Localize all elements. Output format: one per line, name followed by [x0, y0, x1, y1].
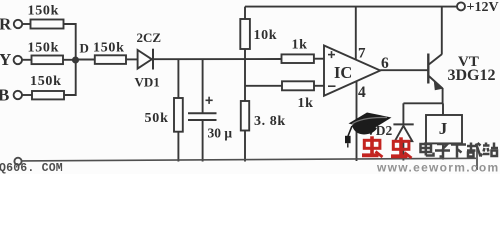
- svg-text:30 μ: 30 μ: [208, 126, 233, 141]
- char dian: [421, 142, 434, 156]
- resistor 150k (series): [95, 55, 126, 64]
- resistor 150k (R input): [31, 20, 64, 29]
- svg-text:www.eeworm.com: www.eeworm.com: [376, 161, 499, 175]
- char zi: [435, 144, 450, 157]
- svg-text:Y: Y: [0, 50, 11, 69]
- op-amp IC: [324, 46, 380, 96]
- wire: [64, 24, 76, 60]
- svg-text:1k: 1k: [298, 96, 314, 111]
- svg-text:2CZ: 2CZ: [137, 30, 162, 45]
- svg-text:B: B: [0, 86, 9, 105]
- terminal Y: [14, 56, 22, 64]
- svg-text:+12V: +12V: [467, 0, 499, 15]
- svg-text:150k: 150k: [30, 74, 62, 89]
- diode VD1: [138, 50, 152, 69]
- capacitor C1 30u: [202, 59, 204, 112]
- svg-text:R: R: [0, 15, 12, 34]
- watermark graduation cap: [345, 113, 392, 148]
- watermark bug characters (chong chong): [362, 136, 412, 158]
- wire: [22, 94, 32, 96]
- watermark text dian zi xia zai zhan: [421, 142, 499, 158]
- svg-text:7: 7: [358, 46, 366, 62]
- wire pin7: [355, 7, 357, 60]
- wire pin4: [356, 82, 358, 162]
- svg-text:150k: 150k: [93, 41, 125, 56]
- svg-text:150k: 150k: [28, 41, 60, 56]
- svg-text:1k: 1k: [292, 38, 308, 53]
- svg-text:IC: IC: [334, 63, 352, 82]
- wire output pin6: [380, 69, 428, 71]
- svg-text:4: 4: [358, 84, 366, 101]
- svg-text:Q606. COM: Q606. COM: [0, 162, 63, 174]
- resistor 10k: [244, 7, 246, 19]
- svg-text:VD1: VD1: [135, 75, 160, 90]
- power rail +12V: [245, 6, 457, 8]
- node D junction dot: [73, 57, 78, 62]
- svg-text:10k: 10k: [254, 28, 278, 43]
- char zhan: [483, 143, 498, 157]
- svg-text:6: 6: [381, 55, 389, 72]
- terminal common: [14, 158, 21, 165]
- wire: [63, 59, 76, 61]
- wire: [126, 58, 138, 60]
- ground rail: [22, 158, 476, 161]
- wire (main node to comparator): [154, 58, 282, 60]
- resistor 50k: [177, 59, 179, 98]
- wire: [76, 59, 95, 61]
- transistor Q1 VT 3DG12: [427, 54, 429, 84]
- char xia: [451, 145, 466, 158]
- svg-text:J: J: [439, 119, 448, 138]
- relay J: [426, 115, 462, 143]
- wire emitter to relay / diode: [403, 102, 443, 104]
- svg-text:50k: 50k: [145, 111, 169, 126]
- terminal R: [14, 20, 22, 28]
- resistor 1k (upper): [245, 85, 282, 87]
- svg-text:150k: 150k: [28, 4, 60, 19]
- char zai: [467, 143, 482, 157]
- wire: [22, 59, 32, 61]
- resistor 150k (B input): [32, 91, 64, 99]
- resistor 3.8k: [241, 101, 249, 131]
- svg-text:3DG12: 3DG12: [448, 67, 496, 84]
- wire: [22, 23, 30, 25]
- terminal B: [14, 91, 22, 99]
- diode VD2: [402, 103, 404, 124]
- svg-text:3. 8k: 3. 8k: [254, 114, 286, 129]
- wire stub right end: [476, 146, 478, 171]
- svg-text:D: D: [80, 41, 89, 56]
- wire: [64, 60, 76, 96]
- resistor 1k (lower): [282, 81, 314, 90]
- resistor 150k (Y input): [32, 56, 64, 65]
